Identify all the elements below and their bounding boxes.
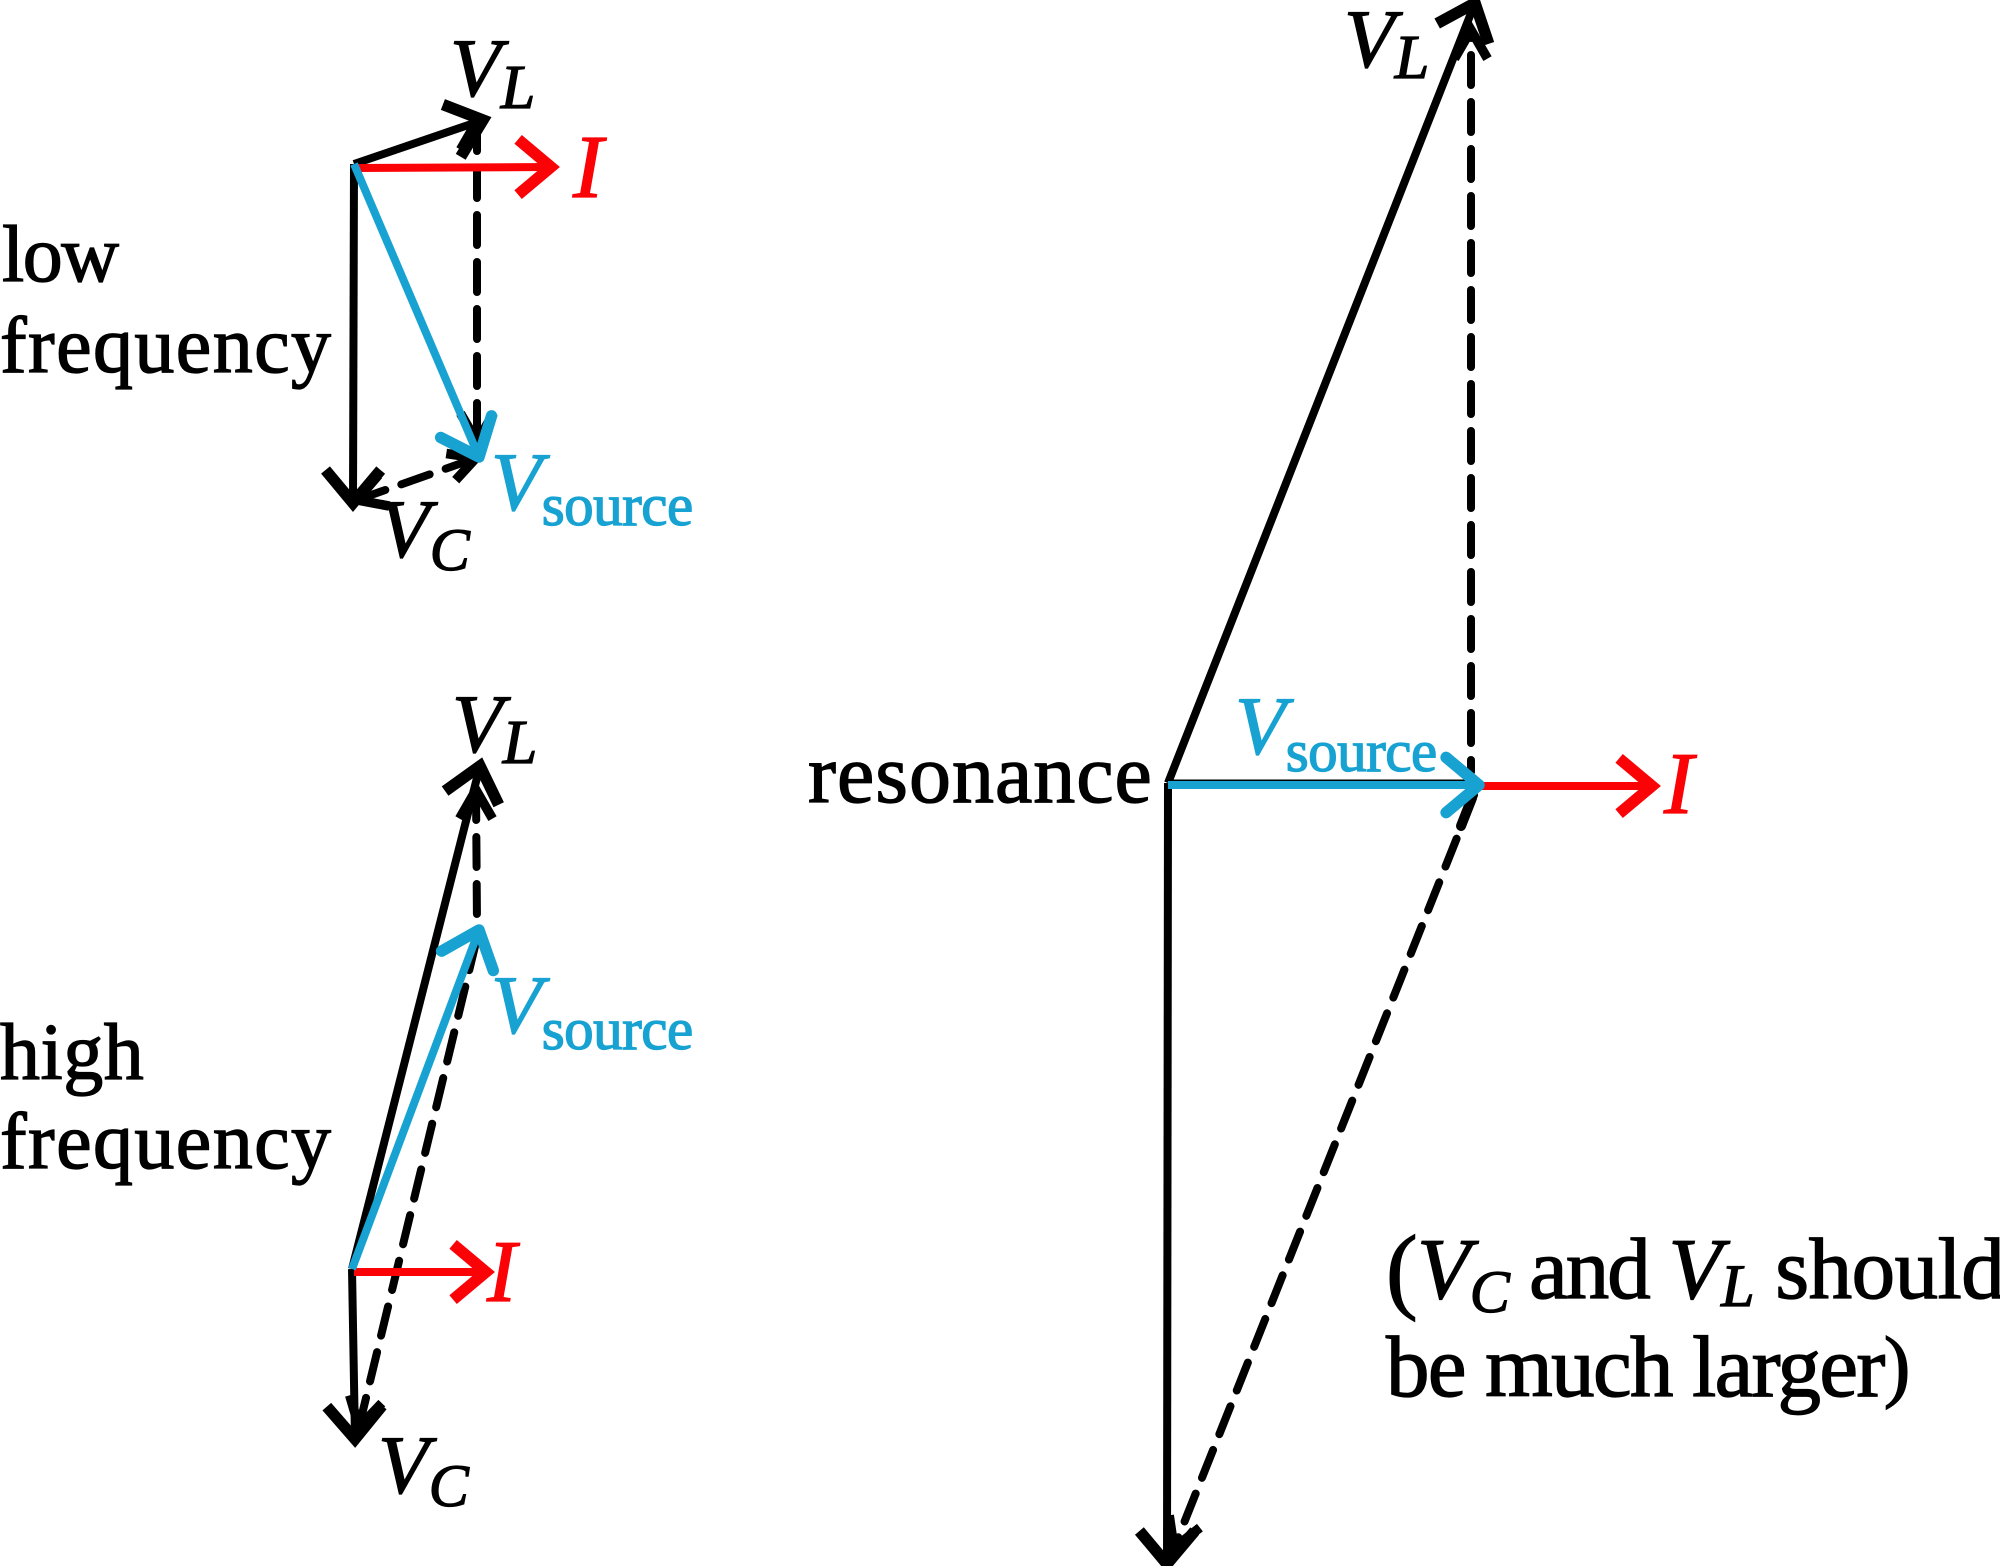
svg-text:I: I [486, 1224, 520, 1321]
dashed construction line (copy of V_L) from V_C tip to V_source tip [357, 458, 476, 500]
svg-text:high: high [0, 1009, 144, 1097]
down arrowhead of vertical dashed line [461, 413, 494, 442]
down-left arrowhead of diagonal dashed line [350, 1395, 382, 1427]
up arrowhead of vertical dashed line [461, 121, 478, 150]
svg-text:be much larger): be much larger) [1386, 1318, 1909, 1415]
svg-text:(VC and VL should: (VC and VL should [1386, 1216, 2000, 1325]
vector V_L (low frequency) [354, 105, 483, 165]
dashed construction line (copy of V_L) from V_source tip to V_C tip [1174, 795, 1474, 1548]
svg-text:VC: VC [379, 483, 471, 583]
up arrowhead of vertical dashed line [460, 790, 493, 819]
vector V_L (high frequency) [352, 766, 499, 1269]
svg-text:VL: VL [452, 678, 537, 777]
vector I (high frequency, red) [354, 1244, 486, 1299]
svg-text:I: I [1663, 736, 1697, 833]
vector V_L (resonance) [1168, 3, 1489, 783]
svg-text:frequency: frequency [0, 302, 332, 390]
vector V_source (high frequency, cyan) [352, 930, 493, 1269]
dashed construction line (copy of V_C) from V_L tip to V_source tip [1467, 30, 1475, 772]
thin black baseline under V_source arrow [1170, 780, 1465, 783]
up-right arrowhead of diagonal dashed line [446, 454, 476, 481]
down-left arrowhead of diagonal dashed line [1169, 1515, 1200, 1548]
svg-text:frequency: frequency [0, 1098, 332, 1186]
dashed construction line (copy of V_C) from V_L tip to V_source tip [476, 790, 477, 925]
svg-text:Vsource: Vsource [491, 436, 693, 538]
up arrowhead of vertical dashed line [1455, 30, 1488, 59]
thick first dash of diagonal dashed line [1461, 798, 1472, 826]
svg-text:I: I [572, 118, 607, 217]
vector V_source (low frequency, cyan) [354, 164, 492, 457]
down-left arrowhead of diagonal dashed line [357, 475, 389, 506]
svg-text:VL: VL [1344, 0, 1429, 92]
vector V_C (low frequency) [326, 164, 381, 503]
vector I (low frequency, red) [357, 139, 551, 194]
vector I (resonance, red) [1481, 758, 1652, 813]
svg-text:resonance: resonance [808, 728, 1153, 821]
svg-text:low: low [2, 211, 119, 299]
vector V_source (resonance, cyan) [1168, 757, 1479, 812]
dashed construction line (copy of V_L) from V_C tip to V_source tip [359, 938, 477, 1427]
vector V_C (resonance) [1139, 783, 1194, 1564]
vector V_C (high frequency) [327, 1269, 382, 1439]
svg-text:Vsource: Vsource [491, 959, 693, 1062]
svg-text:VC: VC [378, 1419, 470, 1519]
svg-text:VL: VL [450, 22, 535, 122]
dashed construction line (copy of V_C) from V_L tip to V_source tip [473, 121, 481, 442]
svg-text:Vsource: Vsource [1235, 680, 1437, 784]
